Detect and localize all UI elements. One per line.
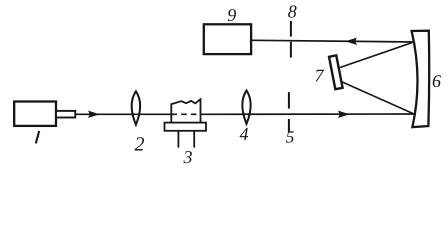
flame cell 3: vessel walls and zigzag flame top (171, 99, 200, 122)
burner leg left (177, 131, 179, 148)
laser 1 body (14, 102, 56, 126)
slit 5 upper bar (288, 92, 290, 109)
wire: top beam mirror 6 to detector 9 (251, 40, 415, 42)
arrow on beam after laser (88, 111, 100, 118)
slit 8 lower bar (290, 42, 292, 58)
svg-text:4: 4 (240, 124, 249, 144)
lens 4 (242, 90, 250, 124)
svg-text:6: 6 (432, 71, 441, 91)
svg-text:7: 7 (315, 65, 325, 85)
detector 9 box (204, 24, 251, 54)
slit 8 upper bar (290, 21, 292, 37)
slit 5 lower bar (288, 119, 290, 132)
burner leg right (193, 131, 195, 148)
arrow on beam toward mirror 6 (338, 111, 350, 118)
svg-text:2: 2 (135, 134, 145, 156)
svg-text:9: 9 (227, 5, 236, 25)
arrow on top beam pointing left (345, 38, 357, 45)
laser 1 nozzle (56, 111, 75, 118)
svg-text:3: 3 (183, 147, 193, 167)
wire: beam mirror 7 to mirror 6 top (340, 42, 415, 68)
concave mirror 6 (412, 31, 430, 127)
burner base of 3 (165, 123, 207, 131)
svg-text:8: 8 (288, 2, 297, 22)
wire: dashed beam inside flame cell (172, 113, 201, 115)
label 1 (35, 131, 40, 144)
wire: main beam laser to mirror 6 (solid left of cell) (75, 113, 172, 115)
wire: beam mirror 6 bottom to mirror 7 (340, 81, 414, 114)
lens 2 (132, 91, 141, 124)
wire: beam cell to mirror 6 bottom (201, 113, 415, 115)
svg-text:5: 5 (286, 128, 295, 147)
plane mirror 7 (329, 55, 343, 89)
